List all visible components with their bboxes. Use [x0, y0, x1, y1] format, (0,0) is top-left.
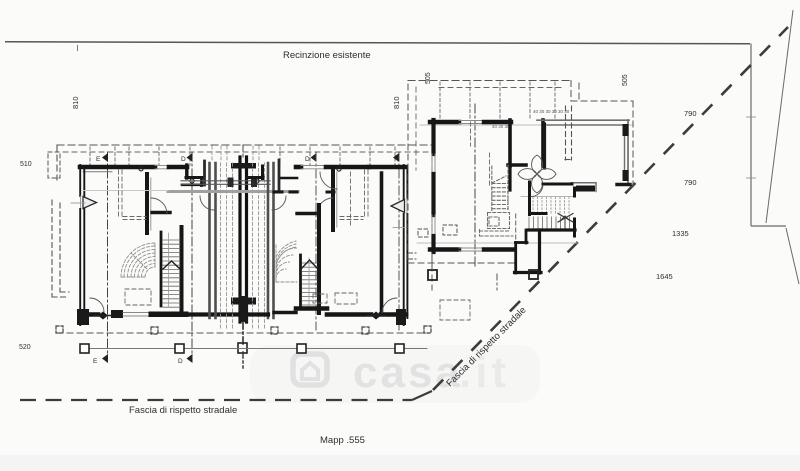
post square right	[497, 270, 538, 290]
wing bottom wall	[571, 183, 630, 192]
bottom wall left unit	[77, 309, 237, 325]
svg-text:1645: 1645	[656, 272, 673, 281]
diamond vent right	[367, 312, 385, 320]
wing dashed right	[578, 83, 580, 101]
stub wall x333 y192	[327, 191, 334, 194]
straight stair right unit	[296, 205, 327, 313]
left outer wall	[432, 120, 435, 252]
svg-text:40 30 30 30 30 30: 40 30 30 30 30 30	[533, 109, 570, 114]
boundary ticks	[746, 117, 756, 178]
roof dashed right	[570, 81, 572, 102]
stair-side wall strip left unit	[210, 163, 216, 318]
dashed interior right building	[440, 122, 490, 320]
svg-text:40 30 30: 40 30 30	[492, 124, 510, 129]
dashed balcony right side	[409, 225, 457, 259]
svg-text:E: E	[93, 358, 98, 365]
roof overhang dashed inner	[63, 151, 428, 153]
top wall mid	[169, 165, 187, 170]
bottom door arc right unit	[382, 298, 397, 313]
straight stair left unit	[151, 227, 186, 314]
mapp label	[320, 435, 365, 446]
wing right wall	[623, 120, 629, 183]
svg-text:790: 790	[684, 109, 697, 118]
fence label	[283, 50, 371, 61]
dashed balcony left side	[52, 200, 69, 297]
interior wall x147	[147, 174, 151, 233]
roof dashed right edge	[431, 145, 433, 290]
tiny dims	[492, 109, 570, 129]
svg-text:D: D	[178, 358, 183, 365]
svg-text:810: 810	[392, 96, 401, 109]
post square left	[428, 253, 437, 280]
stair-side wall strip right unit	[268, 163, 274, 318]
eave hanger dashes	[90, 147, 395, 165]
porch step wall left unit	[182, 161, 205, 186]
watermark casa.it	[293, 348, 510, 397]
section chain line A	[474, 104, 476, 268]
interior wall x333	[333, 167, 337, 230]
gray guide line	[420, 124, 632, 126]
wing left wall	[543, 124, 546, 168]
entry niche walls	[508, 120, 543, 166]
fascia label horizontal	[129, 405, 237, 416]
fascia label diagonal	[444, 305, 528, 389]
door arc top room right unit	[320, 172, 337, 189]
top window left	[155, 166, 169, 169]
dashed closet left unit	[119, 170, 152, 305]
top wall left	[80, 167, 155, 172]
slanted lot line upper	[766, 10, 793, 223]
dashed closet right unit	[313, 170, 368, 304]
dashed crossing corridor	[168, 178, 300, 192]
roof corner dashed bracket	[48, 152, 60, 178]
section line D	[178, 152, 193, 365]
gray guide line 2	[417, 242, 577, 244]
bottom wall	[430, 248, 513, 251]
door header wall right unit	[274, 191, 297, 194]
dashed stair (upper floor) right building	[480, 165, 514, 236]
right boundary vertical line	[750, 44, 752, 227]
roof overhang dashed outline top	[57, 144, 433, 146]
right boundary jog	[751, 225, 786, 227]
svg-text:Recinzione esistente: Recinzione esistente	[283, 50, 371, 61]
fence line (Recinzione esistente)	[5, 42, 750, 51]
interior wall x510 lower	[508, 166, 511, 190]
wall circle symbol	[139, 167, 143, 171]
svg-text:E: E	[96, 156, 101, 163]
lower stair lower flight treads	[529, 217, 570, 229]
hanger dashes	[440, 82, 555, 118]
fan stair right unit	[276, 241, 297, 282]
svg-text:505: 505	[622, 74, 629, 86]
top wall	[430, 121, 511, 124]
left outer wall lower	[71, 203, 85, 325]
long interior wall x381	[351, 172, 382, 313]
roof dashed outline top	[408, 80, 571, 82]
party wall center	[231, 157, 256, 368]
svg-text:1335: 1335	[672, 229, 689, 238]
door arc hall right unit	[317, 198, 333, 214]
bottom door arc left	[90, 298, 104, 312]
svg-text:505: 505	[425, 72, 432, 84]
interior stub wall right unit	[297, 212, 317, 215]
roof dashed inner	[439, 87, 562, 89]
lower stair walls	[528, 182, 575, 236]
svg-text:790: 790	[684, 178, 697, 187]
left wall window + triangle	[81, 196, 97, 209]
section marker right unit 1	[305, 152, 317, 330]
roof dashed bottom	[408, 262, 516, 264]
door arc hall left unit	[151, 198, 167, 214]
cavity dashes left strip	[212, 146, 233, 330]
svg-text:casa: casa	[353, 348, 463, 397]
roof dashed left edge	[56, 145, 58, 180]
fan stair left unit	[121, 243, 155, 277]
svg-text:Mapp .555: Mapp .555	[320, 435, 365, 446]
door arc porch left unit	[200, 196, 214, 210]
roof dashed bottom	[57, 332, 430, 334]
section marker right unit 2	[393, 152, 399, 330]
right outer wall	[391, 165, 407, 325]
door arc porch right unit	[272, 196, 286, 210]
flower door symbol	[518, 155, 556, 193]
svg-text:D: D	[181, 156, 186, 163]
slanted lot line lower	[786, 228, 799, 284]
pergola bracket row	[56, 326, 431, 334]
svg-text:D: D	[305, 156, 310, 163]
bottom wall right unit	[249, 309, 406, 325]
dimension labels	[71, 96, 80, 109]
lower stair gray guide	[521, 196, 573, 198]
svg-text:510: 510	[20, 161, 32, 168]
lower extension	[515, 214, 542, 273]
porch step wall right unit	[247, 160, 298, 190]
wing top wall	[537, 120, 629, 125]
faint guide line left room	[83, 190, 168, 192]
svg-text:520: 520	[19, 344, 31, 351]
party wall chain tip	[242, 145, 244, 157]
pergola line and posts	[80, 344, 427, 353]
roof dashed left	[407, 84, 409, 263]
cavity dashes right strip	[253, 146, 265, 330]
interior stub wall	[152, 211, 170, 214]
bottom dashed fascia line	[20, 399, 412, 401]
top wall right unit	[296, 166, 406, 172]
diamond vent left	[94, 312, 112, 320]
diagonal dashed fascia line	[433, 27, 788, 390]
lower stair upper flight dotted	[533, 197, 569, 213]
wing duct dashed	[565, 106, 572, 160]
section line E	[93, 152, 108, 365]
left outer wall upper	[80, 165, 84, 196]
svg-text:810: 810	[71, 96, 80, 109]
svg-text:Fascia di rispetto stradale: Fascia di rispetto stradale	[129, 405, 237, 416]
fascia elbow	[412, 391, 432, 400]
hall wall y184	[543, 183, 572, 186]
